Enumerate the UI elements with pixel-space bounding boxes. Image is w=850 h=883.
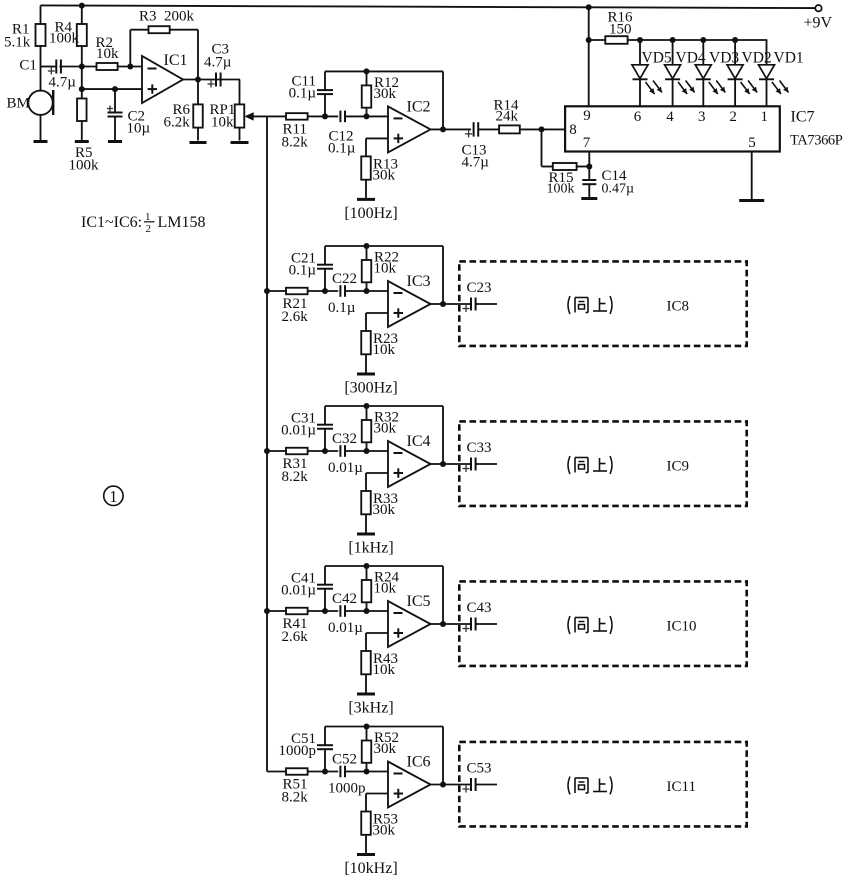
svg-text:10k: 10k [374, 261, 397, 277]
svg-text:6: 6 [634, 109, 642, 125]
svg-text:0.47µ: 0.47µ [602, 182, 635, 197]
svg-text:5.1k: 5.1k [4, 35, 31, 51]
svg-text:3: 3 [698, 109, 706, 125]
svg-text:1: 1 [760, 109, 768, 125]
svg-text:0.1µ: 0.1µ [328, 140, 356, 156]
svg-text:2: 2 [729, 109, 737, 125]
svg-text:150: 150 [609, 22, 632, 38]
svg-text:0.1µ: 0.1µ [289, 263, 317, 279]
svg-text:30k: 30k [373, 823, 396, 839]
svg-text:VD2: VD2 [742, 50, 772, 67]
svg-text:VD1: VD1 [774, 50, 804, 67]
svg-text:C42: C42 [332, 591, 357, 607]
svg-text:[100Hz]: [100Hz] [344, 205, 397, 222]
svg-text:IC10: IC10 [667, 619, 697, 635]
svg-text:6.2k: 6.2k [164, 115, 191, 131]
svg-text:IC6: IC6 [407, 754, 431, 771]
svg-text:[300Hz]: [300Hz] [344, 380, 397, 397]
svg-text:IC8: IC8 [667, 299, 690, 315]
svg-text:0.1µ: 0.1µ [289, 85, 317, 101]
svg-text:[1kHz]: [1kHz] [348, 540, 393, 557]
svg-text:C22: C22 [332, 271, 357, 287]
svg-text:8.2k: 8.2k [282, 134, 309, 150]
svg-text:1000p: 1000p [328, 781, 366, 797]
svg-text:8.2k: 8.2k [282, 790, 309, 806]
svg-text:IC7: IC7 [791, 109, 815, 126]
svg-text:5: 5 [748, 135, 756, 151]
svg-text:30k: 30k [373, 167, 396, 183]
svg-text:7: 7 [583, 135, 591, 151]
svg-text:[10kHz]: [10kHz] [344, 860, 397, 877]
svg-text:C33: C33 [467, 440, 492, 456]
svg-text:30k: 30k [374, 86, 397, 102]
svg-text:0.1µ: 0.1µ [328, 300, 356, 316]
svg-text:9: 9 [583, 108, 591, 124]
svg-text:100k: 100k [547, 182, 575, 197]
svg-text:8: 8 [569, 122, 577, 138]
svg-text:C52: C52 [332, 752, 357, 768]
svg-text:2: 2 [146, 223, 152, 235]
svg-text:C1: C1 [19, 58, 37, 74]
svg-text:0.01µ: 0.01µ [328, 460, 363, 476]
svg-text:0.01µ: 0.01µ [328, 620, 363, 636]
svg-text:2.6k: 2.6k [282, 629, 309, 645]
svg-text:C53: C53 [467, 761, 492, 777]
svg-text:0.01µ: 0.01µ [281, 423, 316, 439]
svg-text:C23: C23 [467, 280, 492, 296]
svg-text:10k: 10k [373, 662, 396, 678]
svg-text:10k: 10k [211, 115, 234, 131]
svg-text:24k: 24k [496, 109, 519, 125]
svg-text:LM158: LM158 [158, 214, 206, 231]
svg-text:4.7µ: 4.7µ [204, 54, 232, 70]
svg-text:10k: 10k [374, 581, 397, 597]
svg-text:VD3: VD3 [709, 50, 739, 67]
svg-text:IC9: IC9 [667, 459, 690, 475]
svg-text:IC11: IC11 [667, 779, 696, 795]
svg-text:C43: C43 [467, 600, 492, 616]
svg-text:1: 1 [109, 487, 117, 506]
svg-text:BM: BM [7, 96, 30, 112]
svg-text:4.7µ: 4.7µ [49, 75, 77, 91]
svg-text:IC5: IC5 [407, 593, 431, 610]
svg-text:IC1~IC6:: IC1~IC6: [81, 214, 142, 231]
svg-text:4.7µ: 4.7µ [462, 155, 490, 171]
svg-text:2.6k: 2.6k [282, 309, 309, 325]
svg-text:+9V: +9V [804, 15, 833, 32]
svg-text:0.01µ: 0.01µ [281, 583, 316, 599]
svg-text:30k: 30k [374, 741, 397, 757]
svg-text:10k: 10k [373, 342, 396, 358]
svg-text:[3kHz]: [3kHz] [348, 700, 393, 717]
svg-text:VD4: VD4 [676, 50, 706, 67]
svg-text:IC3: IC3 [407, 273, 431, 290]
svg-text:IC4: IC4 [407, 433, 431, 450]
svg-text:100k: 100k [69, 158, 100, 174]
svg-text:C32: C32 [332, 431, 357, 447]
svg-text:10k: 10k [96, 46, 119, 62]
svg-text:4: 4 [666, 109, 674, 125]
svg-text:1000p: 1000p [279, 743, 317, 759]
svg-text:VD5: VD5 [642, 50, 672, 67]
svg-text:8.2k: 8.2k [282, 469, 309, 485]
svg-text:IC2: IC2 [407, 98, 431, 115]
svg-text:IC1: IC1 [164, 52, 188, 69]
svg-text:100k: 100k [49, 31, 80, 47]
svg-text:R3 200k: R3 200k [139, 8, 195, 24]
svg-text:10µ: 10µ [127, 121, 151, 137]
svg-text:TA7366P: TA7366P [790, 133, 843, 149]
svg-text:30k: 30k [374, 421, 397, 437]
svg-text:30k: 30k [373, 502, 396, 518]
